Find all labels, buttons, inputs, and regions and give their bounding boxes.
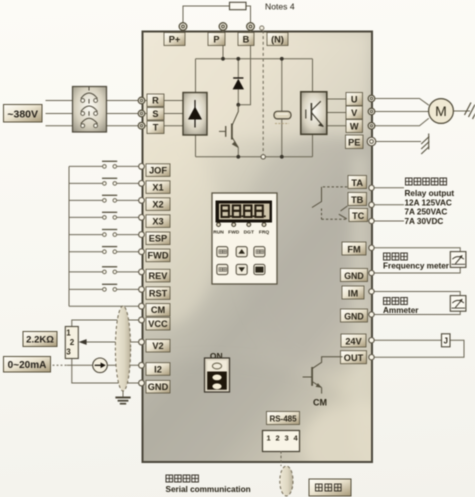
terminal circle 24V	[369, 338, 374, 343]
wire frequency meter to GND	[374, 267, 460, 273]
svg-text:FRQ: FRQ	[259, 230, 270, 236]
svg-text:P: P	[213, 34, 219, 44]
terminal label JOF	[146, 164, 170, 177]
terminal label X1	[146, 181, 170, 194]
svg-text:1: 1	[267, 434, 271, 443]
terminal label B	[238, 33, 254, 46]
wire digital input bus	[68, 166, 70, 306]
wire inverter out V	[327, 112, 346, 114]
svg-text:Relay output: Relay output	[405, 189, 455, 198]
wire PE to ground	[376, 141, 421, 143]
terminal label U	[346, 93, 363, 106]
svg-text:VCC: VCC	[148, 319, 168, 329]
terminal circle FM	[369, 245, 374, 250]
svg-text:I2: I2	[154, 364, 162, 374]
wire brake diode leads	[237, 59, 239, 105]
svg-text:FWD: FWD	[228, 230, 240, 236]
terminal label (N)	[267, 33, 288, 46]
inverter IGBT module	[301, 92, 327, 135]
terminal label RST	[146, 287, 170, 300]
node emitter on DC- bus	[236, 155, 240, 159]
terminal label GND2	[341, 309, 368, 322]
terminal label W	[346, 120, 363, 133]
svg-text:T: T	[153, 123, 159, 133]
terminal circle V	[368, 108, 375, 115]
brake resistor (Notes 4)	[230, 2, 247, 9]
wire connector to shield	[280, 451, 282, 466]
svg-text:TB: TB	[351, 195, 364, 205]
wire TB out	[374, 204, 404, 206]
keypad button store	[217, 264, 228, 274]
svg-text:V: V	[351, 108, 358, 118]
terminal circle T	[138, 122, 145, 129]
svg-text:7A 250VAC: 7A 250VAC	[405, 208, 448, 217]
svg-text:IM: IM	[348, 288, 359, 298]
wire ammeter to GND	[374, 311, 460, 314]
wire breaker to terminal R	[107, 100, 139, 102]
terminal circle S	[138, 110, 145, 117]
label serial communication chinese	[166, 475, 198, 482]
terminal label CM	[146, 304, 170, 317]
wire bus to CM	[69, 305, 139, 307]
terminal label REV	[146, 269, 170, 282]
svg-text:R: R	[152, 96, 159, 106]
terminal label S	[147, 108, 164, 121]
terminal label V2	[146, 339, 170, 352]
inverter enclosure outline	[50, 32, 420, 497]
svg-text:REV: REV	[149, 271, 169, 281]
node P junction on DC+ bus	[221, 57, 225, 61]
wire breaker to terminal T	[107, 125, 139, 127]
wire 24V to relay J	[374, 339, 441, 341]
switch ESP	[69, 230, 139, 237]
terminal label OUT	[341, 351, 367, 364]
wire N dashed internal	[262, 31, 264, 155]
terminal circle R	[138, 97, 145, 104]
svg-text:2.2KΩ: 2.2KΩ	[26, 335, 54, 346]
terminal label GND analog	[146, 380, 170, 393]
terminal label VCC	[146, 317, 170, 330]
svg-text:GND: GND	[148, 382, 169, 392]
node capacitor on DC- bus	[280, 155, 284, 159]
wire 380V to breaker R	[46, 100, 73, 102]
bus capacitor C	[274, 111, 291, 123]
wire 380V to breaker S	[46, 113, 73, 115]
wire P+ to brake resistor	[183, 6, 230, 23]
terminal label 24V	[341, 334, 366, 347]
terminal circle GND fm	[369, 270, 374, 275]
svg-text:FM: FM	[347, 244, 361, 254]
terminal circle TB	[369, 202, 374, 207]
keypad button down	[236, 264, 247, 274]
DIP switch SW1	[205, 358, 230, 392]
svg-text:RST: RST	[149, 288, 168, 298]
svg-text:W: W	[350, 122, 359, 132]
keypad LED labels RUN FWD DGT FRQ	[213, 230, 269, 236]
terminal label ESP	[146, 232, 170, 245]
svg-text:OUT: OUT	[344, 353, 364, 363]
svg-text:JOF: JOF	[149, 165, 167, 175]
wire rectifier bottom	[195, 135, 197, 157]
wire IM to ammeter	[374, 292, 460, 296]
label 2.2K box	[23, 332, 57, 347]
wire DC+ bus	[196, 58, 313, 60]
wire P to DC+ bus	[222, 30, 224, 59]
svg-text:U: U	[351, 95, 358, 105]
terminal circles analog	[139, 317, 145, 386]
svg-text:GND: GND	[344, 311, 364, 321]
terminal circle PE	[367, 137, 376, 146]
svg-text:~380V: ~380V	[7, 109, 38, 121]
wire V2 to wiper	[86, 341, 144, 343]
wire IGBT emitter to DC- bus	[237, 148, 239, 157]
potentiometer RP 2.2K	[65, 327, 78, 359]
wire terminal S to rectifier	[144, 113, 183, 115]
shielded cable ellipse serial	[280, 466, 293, 496]
wire inverter out U	[327, 98, 346, 100]
keypad LEDs	[217, 223, 266, 227]
switch X3	[69, 212, 139, 219]
svg-text:RUN: RUN	[213, 230, 224, 236]
terminal circle U	[368, 95, 375, 102]
svg-text:Serial communication: Serial communication	[166, 485, 251, 494]
svg-text:B: B	[243, 34, 250, 44]
relay contact internal	[312, 187, 347, 219]
wire shield to earth	[122, 391, 124, 397]
svg-text:TC: TC	[352, 211, 365, 221]
digit decimal points	[230, 215, 266, 217]
wire I2 dashed to source	[51, 364, 67, 366]
svg-text:M: M	[435, 103, 447, 119]
terminal circle N	[260, 26, 264, 30]
relay coil J	[442, 334, 451, 347]
terminal label X2	[146, 198, 170, 211]
terminal label T	[147, 121, 164, 134]
node capacitor on DC+ bus	[280, 57, 284, 61]
svg-text:24V: 24V	[345, 336, 362, 346]
svg-text:X2: X2	[152, 199, 163, 209]
wire bus to inverter top	[312, 59, 314, 92]
svg-text:V2: V2	[152, 341, 163, 351]
svg-text:J: J	[443, 336, 447, 345]
svg-text:1: 1	[66, 329, 71, 338]
terminal circle W	[368, 123, 375, 130]
terminal circle P	[219, 23, 227, 31]
terminal label V	[346, 106, 363, 119]
terminal label X3	[146, 215, 170, 228]
keypad button up	[236, 247, 247, 257]
terminal label IM	[342, 286, 364, 299]
label frequency meter chinese	[384, 253, 408, 260]
keypad button run	[254, 264, 265, 274]
frequency meter symbol	[450, 252, 466, 268]
svg-text:GND: GND	[344, 271, 364, 281]
wire TA out	[374, 187, 404, 189]
svg-text:DGT: DGT	[244, 230, 254, 236]
wire V to motor	[374, 111, 429, 113]
RS-485 connector 1 2 3 4	[263, 431, 300, 452]
switch RST	[69, 284, 139, 291]
svg-text:S: S	[152, 109, 158, 119]
wire breaker to terminal S	[107, 113, 139, 115]
wire 380V to breaker T	[46, 125, 73, 127]
label shielded wire box	[309, 479, 351, 496]
switch X1	[69, 178, 139, 185]
svg-text:Ammeter: Ammeter	[383, 306, 419, 315]
wire B to chopper node	[238, 30, 250, 105]
terminal label FM	[342, 242, 366, 255]
wire FM to frequency meter	[374, 248, 460, 252]
svg-text:(N): (N)	[271, 34, 284, 44]
switch REV	[69, 267, 139, 274]
terminal label PE	[346, 135, 364, 149]
svg-text:2: 2	[70, 338, 75, 347]
terminal circle TC	[369, 218, 374, 223]
keypad 7-segment digits 8.8.8.8	[222, 205, 263, 217]
brake diode	[233, 78, 244, 89]
terminal circle IM	[369, 289, 374, 294]
ground motor frame	[465, 103, 475, 120]
label 0~20mA box	[4, 357, 51, 373]
svg-text:TA: TA	[351, 178, 363, 188]
wire capacitor bottom	[281, 119, 283, 157]
motor M	[429, 99, 454, 124]
svg-text:PE: PE	[348, 137, 360, 147]
rectifier bridge module	[183, 93, 207, 136]
terminal label TC	[349, 209, 368, 222]
svg-text:Notes 4: Notes 4	[265, 2, 295, 12]
terminal label FWD	[146, 249, 170, 262]
transistor open collector	[303, 367, 322, 394]
keypad display bezel	[216, 201, 273, 223]
terminal label TA	[348, 176, 367, 189]
wire TC out	[374, 220, 404, 222]
wire terminal R to rectifier	[144, 100, 183, 102]
wire DC- bus	[196, 156, 313, 158]
ground earth analog shield	[115, 398, 130, 404]
terminal label P	[208, 33, 225, 46]
terminal circle OUT	[369, 355, 374, 360]
svg-text:3: 3	[285, 434, 289, 443]
wire U to motor	[374, 99, 429, 106]
node brake diode on DC+ bus	[236, 57, 240, 61]
label ammeter chinese	[384, 298, 408, 305]
svg-text:FWD: FWD	[148, 251, 169, 261]
wire inverter bottom	[312, 135, 314, 157]
svg-text:X1: X1	[152, 182, 163, 192]
wire rectifier top	[195, 59, 197, 93]
wire terminal T to rectifier	[144, 125, 183, 127]
brake IGBT	[219, 105, 238, 148]
ground PE chassis	[421, 134, 429, 155]
svg-text:CM: CM	[151, 305, 166, 315]
svg-text:Frequency meter: Frequency meter	[383, 261, 450, 270]
terminal circle GND im	[369, 312, 374, 317]
terminal circle TA	[369, 185, 374, 190]
wiper arrow	[79, 339, 87, 345]
switch JOF	[69, 161, 139, 168]
svg-text:0~20mA: 0~20mA	[8, 360, 47, 371]
terminal label TB	[348, 193, 367, 206]
shielded cable ellipse analog	[115, 306, 130, 391]
svg-text:3: 3	[66, 348, 71, 357]
terminal label GND1	[341, 269, 368, 282]
current source symbol	[93, 358, 108, 373]
node chopper B junction	[236, 103, 240, 107]
svg-text:7A 30VDC: 7A 30VDC	[405, 217, 444, 226]
terminal label R	[147, 94, 164, 107]
keypad button data	[254, 247, 265, 257]
terminal circles digital inputs	[139, 164, 145, 310]
switch FWD	[69, 247, 139, 254]
label relay output chinese	[406, 178, 447, 185]
wire GND to potentiometer bottom	[72, 359, 144, 383]
svg-text:X3: X3	[152, 216, 163, 226]
node N open junction on DC- bus	[261, 155, 265, 159]
ammeter symbol	[450, 296, 466, 312]
wire I2	[67, 364, 144, 366]
wire relay J to OUT	[374, 340, 464, 357]
terminal label I2	[146, 363, 170, 376]
label ~380V box	[4, 105, 43, 123]
terminal circle B	[247, 23, 255, 31]
svg-text:ESP: ESP	[149, 234, 167, 244]
svg-text:P+: P+	[169, 34, 181, 44]
switch X2	[69, 195, 139, 202]
wire W to motor	[374, 118, 429, 126]
svg-text:CM: CM	[313, 398, 327, 408]
wire inverter out W	[327, 125, 346, 127]
wire brake resistor to B	[246, 6, 251, 23]
keypad panel	[212, 193, 277, 284]
label relay output texts	[405, 189, 455, 226]
wire OUT to transistor collector	[313, 357, 343, 369]
label RS-485 box	[267, 412, 300, 425]
wire VCC to potentiometer	[72, 320, 144, 327]
wire motor frame ground	[454, 110, 471, 112]
svg-text:12A 125VAC: 12A 125VAC	[405, 198, 452, 207]
terminal label P+	[164, 33, 185, 46]
circuit breaker QF	[73, 86, 107, 132]
terminal circle P+	[179, 23, 187, 31]
svg-text:RS-485: RS-485	[269, 414, 297, 423]
svg-text:2: 2	[276, 434, 280, 443]
wire capacitor top	[281, 59, 283, 112]
keypad button function	[217, 247, 228, 257]
